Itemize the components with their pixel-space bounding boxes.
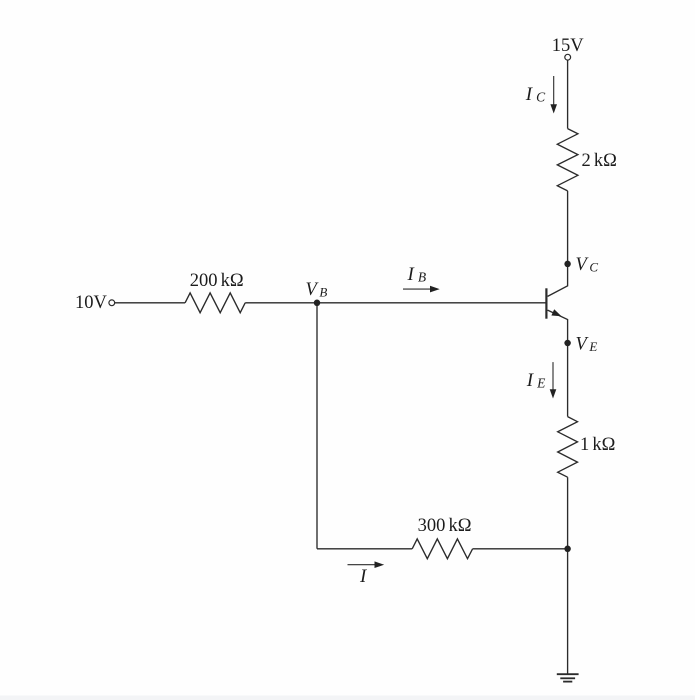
svg-text:300 kΩ: 300 kΩ — [418, 516, 472, 536]
svg-text:10V: 10V — [75, 293, 108, 313]
svg-text:15V: 15V — [552, 36, 585, 56]
svg-text:1 kΩ: 1 kΩ — [580, 435, 615, 455]
svg-text:200 kΩ: 200 kΩ — [190, 271, 244, 291]
svg-text:2 kΩ: 2 kΩ — [582, 151, 617, 171]
